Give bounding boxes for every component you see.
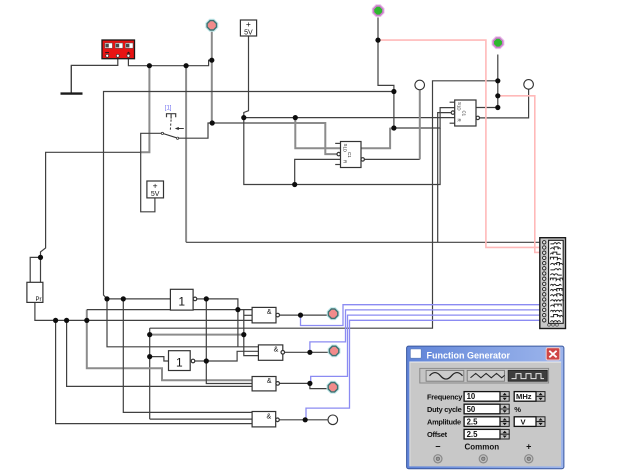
wire x149 to gate4 input b bbox=[150, 418, 252, 420]
svg-text:+: + bbox=[526, 442, 531, 452]
terminal row bbox=[434, 442, 533, 463]
svg-text:Offset: Offset bbox=[427, 430, 448, 439]
svg-text:Frequency: Frequency bbox=[427, 392, 463, 401]
wire tap x86 to gate3 input a bbox=[87, 310, 252, 381]
wire FF2 clock feed from analyzer bus bbox=[438, 113, 452, 243]
wire y128 to FF2 D input bbox=[394, 108, 455, 128]
junction J18 (107,298.9) bbox=[104, 296, 109, 301]
svg-text:50: 50 bbox=[467, 405, 476, 414]
pink wire net2 from G2 junction to analyzer pin3 bbox=[499, 96, 540, 253]
blue wire probe3 net to analyzer ch15 bbox=[311, 315, 544, 383]
ground bbox=[61, 65, 83, 93]
probe LP1 (pink) bbox=[328, 309, 337, 318]
svg-text:&: & bbox=[267, 309, 272, 316]
junction J12 (497.8,95.8) bbox=[495, 93, 500, 98]
wire DIP net branch at x186 down to analyzer bus bbox=[185, 66, 187, 243]
probe LP4 (white) bbox=[328, 415, 338, 425]
svg-text:Common: Common bbox=[464, 443, 499, 452]
svg-text:1: 1 bbox=[178, 295, 185, 309]
wire DIP pin3 to pink-probe column bbox=[128, 59, 211, 66]
wire gate3 output to probe LP3 bbox=[280, 383, 328, 388]
wire FF1 Qbar under-box feed bbox=[295, 159, 341, 184]
wire switch right contact to clock junction bbox=[178, 123, 212, 138]
wire green probe G2 stem bbox=[497, 55, 499, 81]
wire W1 branch down to FF1 D input bbox=[295, 118, 340, 149]
svg-text:+: + bbox=[153, 180, 158, 190]
wire +5V V1 lead down bbox=[244, 36, 249, 118]
wire tap x66 to gate3 input c bbox=[67, 320, 253, 386]
offset row bbox=[427, 429, 509, 439]
probe W2 (white) bbox=[524, 80, 534, 90]
wire FF2 Qbar to white probe W2 bbox=[480, 89, 529, 118]
junction J6 (295.3,117.6) bbox=[293, 115, 298, 120]
probe G2 (green) bbox=[493, 38, 502, 47]
instrument: function generator dialog bbox=[407, 346, 564, 469]
svg-text:+: + bbox=[246, 19, 251, 29]
wire pink probe P1 stem bbox=[211, 31, 213, 61]
svg-text:−: − bbox=[435, 442, 440, 452]
nand gate U10 bbox=[252, 412, 279, 427]
junction J27 (309.9,352.3) bbox=[307, 350, 312, 355]
svg-text:10: 10 bbox=[467, 392, 476, 401]
svg-text:Amplitude: Amplitude bbox=[427, 418, 461, 427]
junction J2 (186.1,65.7) bbox=[184, 63, 189, 68]
wire U6 output row bbox=[195, 360, 206, 362]
junction J13 (497.8,107.5) bbox=[495, 105, 500, 110]
junction J20 (206.3,298.9) bbox=[204, 296, 209, 301]
svg-text:C1: C1 bbox=[461, 111, 466, 117]
junction J8 (378,40.1) bbox=[375, 38, 380, 43]
wire G1 net down and over bbox=[378, 40, 394, 91]
power +5V V1 bbox=[240, 19, 256, 37]
wires group bbox=[30, 18, 544, 424]
svg-text:C1: C1 bbox=[347, 152, 352, 158]
wire FF1 Qbar to white probe W1 bbox=[363, 158, 420, 160]
wire gate4 output to probe LP4 bbox=[279, 419, 327, 421]
junction J3 (211.8,60.2) bbox=[209, 58, 214, 63]
wire y91 rail to left column bbox=[104, 92, 394, 299]
wire inverter U5 output to junction bbox=[197, 298, 206, 300]
flip-flop U1 (D-type, middle) bbox=[335, 142, 364, 168]
svg-text:2.5: 2.5 bbox=[467, 430, 479, 439]
DIP switch S2 (red 3-position) bbox=[102, 40, 135, 59]
wire tap x55 to gate4 input c bbox=[56, 320, 253, 423]
nand gate U8 bbox=[258, 345, 284, 360]
probe P1 (pink) bbox=[207, 21, 216, 30]
waveform selector panel bbox=[420, 368, 549, 383]
wire x149 column down bbox=[149, 328, 151, 419]
wire FF2 D feedback loop via x432 bbox=[150, 81, 498, 328]
junction J24 (243.8,334.6) bbox=[241, 332, 246, 337]
junction J15 (55.6,320.4) bbox=[53, 318, 58, 323]
probe W1 (white) bbox=[415, 80, 425, 90]
wire pink-probe column down to switch junction bbox=[211, 60, 213, 123]
svg-text:[1]: [1] bbox=[165, 106, 172, 112]
wire gate1 input b from x243 column bbox=[244, 314, 252, 316]
svg-text:&: & bbox=[267, 413, 272, 420]
svg-text:1D: 1D bbox=[342, 147, 347, 153]
wire long row to gate1 input a bbox=[87, 309, 252, 311]
wire FF1 Q output riser bbox=[361, 128, 394, 148]
wire W2 clock to FF1 clock input bbox=[212, 123, 337, 154]
amplitude row bbox=[427, 417, 545, 427]
svg-text:5V: 5V bbox=[244, 30, 253, 37]
svg-text:1D: 1D bbox=[456, 105, 461, 111]
wire x149 branch to inverter U6 input bbox=[150, 357, 169, 361]
wire x394 link between rails bbox=[393, 92, 395, 129]
junction J5 (243.8,117.6) bbox=[241, 115, 246, 120]
junction J23 (237.9,309.6) bbox=[235, 307, 240, 312]
junction J21 (206.3,361) bbox=[204, 358, 209, 363]
clock source Pr bbox=[27, 282, 43, 303]
svg-text:R: R bbox=[342, 160, 347, 163]
wire Pr box output to bottom bus bbox=[35, 302, 252, 320]
junction J28 (309.9,383.4) bbox=[307, 381, 312, 386]
wire ground lead from DIP middle pin bbox=[71, 59, 118, 94]
wire switch left contact to +5V supply V2 bbox=[141, 133, 162, 212]
svg-text:&: & bbox=[267, 378, 272, 385]
svg-text:5V: 5V bbox=[151, 191, 160, 198]
wire U5 out elbow to row bbox=[206, 299, 238, 347]
wire FF2 Q output bbox=[476, 107, 498, 109]
blue wire probe4 net to analyzer ch16 bbox=[306, 320, 544, 419]
probe LP3 (pink) bbox=[328, 383, 337, 392]
wire x149 branch to gate2 input c bbox=[150, 334, 244, 336]
junction J7 (294.7,184.5) bbox=[292, 182, 297, 187]
power +5V V2 bbox=[147, 180, 164, 198]
nand gate U7 bbox=[252, 307, 279, 323]
svg-text:2.5: 2.5 bbox=[467, 417, 479, 426]
probe LP2 (pink) bbox=[329, 346, 338, 355]
junction J25 (149.7,356.6) bbox=[147, 354, 152, 359]
svg-text:&: & bbox=[274, 347, 279, 354]
blue wire probe2 net to analyzer ch14 bbox=[310, 310, 544, 351]
wire inverter U5 input row bbox=[107, 298, 170, 300]
wire G2 column to FF2 Q bbox=[497, 81, 499, 108]
wire link between inverter output columns bbox=[205, 299, 207, 361]
inverter U5 bbox=[170, 289, 196, 310]
wire x206 down to gate3 input b bbox=[206, 361, 252, 384]
svg-text:MHz: MHz bbox=[516, 392, 532, 401]
wire +5V net down to y182 rail bbox=[244, 118, 295, 185]
junction J29 (305.2,419.8) bbox=[303, 417, 308, 422]
wire inverter U5 row tap to gate4 input a bbox=[123, 299, 252, 413]
nand gate U9 bbox=[252, 377, 279, 391]
components group bbox=[27, 6, 566, 427]
probe G1 (green) bbox=[374, 6, 383, 15]
svg-text:Function Generator: Function Generator bbox=[427, 351, 511, 361]
wire left column to gate2 input a bbox=[107, 299, 258, 347]
inverter U6 bbox=[169, 351, 195, 371]
frequency row bbox=[427, 392, 545, 402]
junction J1 (149.4,65.7) bbox=[147, 63, 152, 68]
pink wire net1 from G1 junction to analyzer pin2 bbox=[379, 40, 540, 247]
wire Pr box top left loop bbox=[30, 257, 40, 282]
blue wire probe1 net to analyzer ch13 bbox=[301, 305, 545, 326]
wire gate1 output to probe LP1 bbox=[280, 314, 328, 316]
svg-text:1: 1 bbox=[176, 356, 183, 370]
junction J14 (40.5,257.4) bbox=[38, 255, 43, 260]
wire U6 out to gate2 input b bbox=[206, 351, 258, 361]
junction J16 (66.6,320.4) bbox=[64, 318, 69, 323]
duty cycle row bbox=[427, 404, 521, 414]
wire gate2 output to probe LP2 bbox=[285, 351, 329, 353]
svg-text:Pr: Pr bbox=[36, 297, 42, 303]
wire W1 +5V net horizontal to FF2 bbox=[244, 117, 455, 119]
junction J17 (86.8,320.4) bbox=[84, 318, 89, 323]
junction J26 (300.5,315.1) bbox=[298, 313, 303, 318]
wire y182 rail to FF2 D riser bbox=[295, 128, 440, 185]
wire Pr box top pins bbox=[40, 257, 42, 282]
svg-text:%: % bbox=[514, 405, 521, 414]
junction J19 (123.3,298.9) bbox=[121, 296, 126, 301]
junction J22 (149.7,334.6) bbox=[147, 332, 152, 337]
svg-text:Duty cycle: Duty cycle bbox=[427, 405, 462, 414]
svg-text:R: R bbox=[456, 119, 461, 122]
wire x243 lower column to gate2 input c bbox=[244, 310, 259, 356]
junction J9 (393.9,91.5) bbox=[391, 89, 396, 94]
junction J4 (212.2,123) bbox=[210, 120, 215, 125]
switch J1 (interactive, key 1) bbox=[161, 106, 184, 140]
logic analyzer XLA1 bbox=[540, 238, 566, 329]
junction J10 (393.9,128) bbox=[391, 125, 396, 130]
wire green probe G1 stem bbox=[377, 18, 379, 41]
wire DIP net branch at x149 going left bbox=[140, 66, 149, 153]
flip-flop U2 (D-type, right) bbox=[450, 100, 480, 126]
junction J11 (497.8,80.8) bbox=[495, 78, 500, 83]
